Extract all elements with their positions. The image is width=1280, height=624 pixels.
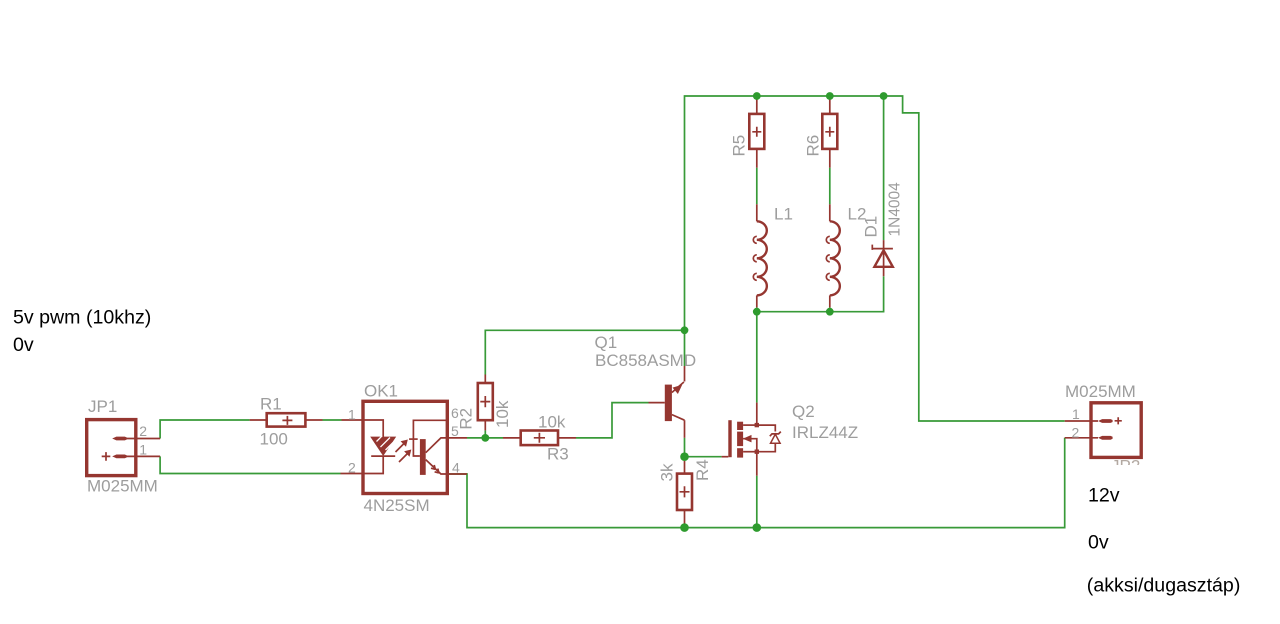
svg-text:(akksi/dugasztáp): (akksi/dugasztáp) bbox=[1087, 575, 1241, 597]
svg-text:R6: R6 bbox=[804, 135, 823, 157]
svg-text:M025MM: M025MM bbox=[87, 477, 158, 496]
svg-text:1N4004: 1N4004 bbox=[887, 182, 904, 237]
svg-text:12v: 12v bbox=[1088, 485, 1120, 507]
svg-text:100: 100 bbox=[260, 430, 288, 449]
svg-text:2: 2 bbox=[1072, 425, 1080, 441]
svg-text:5v pwm (10khz): 5v pwm (10khz) bbox=[13, 307, 151, 329]
svg-text:R3: R3 bbox=[547, 445, 569, 464]
svg-text:10k: 10k bbox=[538, 413, 566, 432]
svg-text:IRLZ44Z: IRLZ44Z bbox=[792, 423, 858, 442]
svg-text:0v: 0v bbox=[13, 334, 34, 356]
svg-text:OK1: OK1 bbox=[364, 382, 398, 401]
svg-text:Q1: Q1 bbox=[595, 333, 618, 352]
svg-text:L1: L1 bbox=[774, 205, 793, 224]
svg-text:R1: R1 bbox=[260, 395, 282, 414]
svg-text:4: 4 bbox=[452, 460, 460, 476]
svg-text:2: 2 bbox=[348, 460, 356, 476]
svg-text:Q2: Q2 bbox=[792, 402, 815, 421]
svg-text:R4: R4 bbox=[693, 459, 712, 481]
svg-text:4N25SM: 4N25SM bbox=[364, 496, 430, 515]
svg-text:3k: 3k bbox=[658, 463, 677, 481]
svg-text:R5: R5 bbox=[730, 135, 749, 157]
svg-text:1: 1 bbox=[139, 442, 147, 458]
svg-text:D1: D1 bbox=[862, 216, 881, 238]
svg-text:2: 2 bbox=[139, 423, 147, 439]
svg-text:BC858ASMD: BC858ASMD bbox=[595, 351, 696, 370]
svg-text:10k: 10k bbox=[493, 400, 512, 428]
svg-text:1: 1 bbox=[1072, 406, 1080, 422]
svg-text:JP1: JP1 bbox=[88, 397, 117, 416]
svg-text:R2: R2 bbox=[457, 408, 476, 430]
svg-text:0v: 0v bbox=[1088, 532, 1109, 554]
svg-text:M025MM: M025MM bbox=[1065, 382, 1136, 401]
svg-text:1: 1 bbox=[348, 407, 356, 423]
